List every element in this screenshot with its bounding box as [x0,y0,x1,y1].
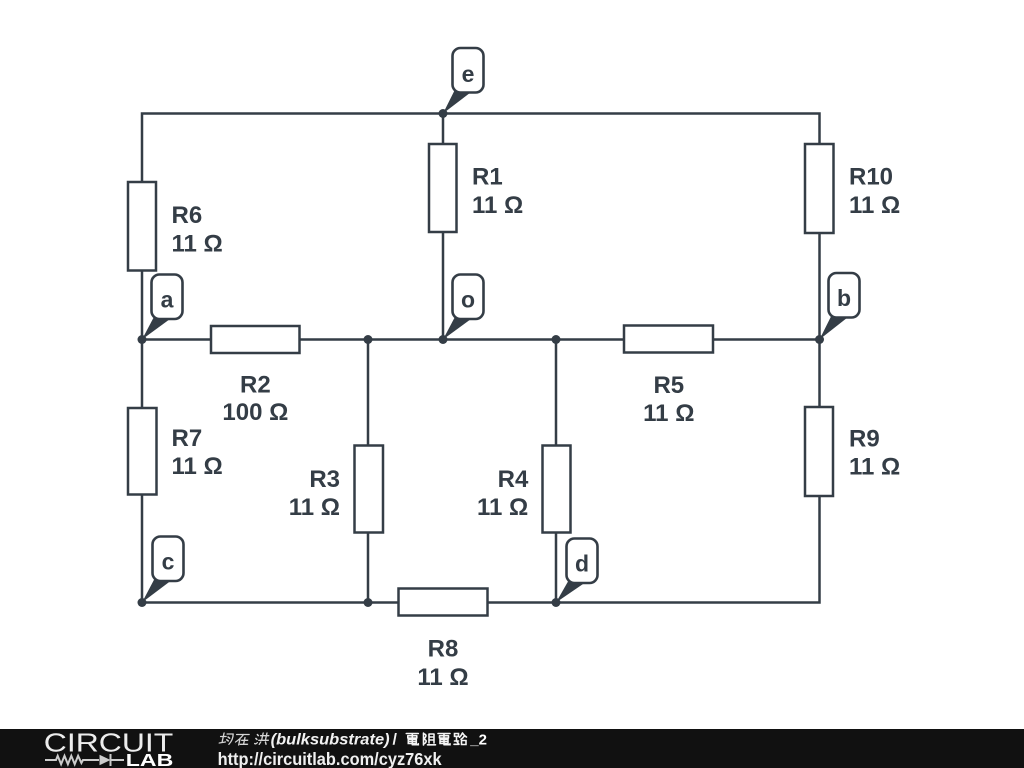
node o label [443,275,484,340]
glyph 路 [454,733,467,745]
svg-text:c: c [162,549,175,575]
svg-text:R9: R9 [849,426,880,453]
svg-text:11 Ω: 11 Ω [417,664,468,691]
glyph 電 (1st) [406,734,418,745]
wire middle horizontal a-o-b [142,338,820,341]
svg-text:_2: _2 [469,732,487,749]
svg-text:(bulksubstrate): (bulksubstrate) [271,732,390,749]
glyph 在 [234,735,249,746]
resistor R8 11Ω [399,589,488,692]
svg-text:11 Ω: 11 Ω [472,192,523,219]
svg-text:/: / [393,732,398,749]
svg-text:http://circuitlab.com/cyz76xk: http://circuitlab.com/cyz76xk [218,749,442,768]
CircuitLab logo resistor-diode squiggle [45,754,124,766]
wire outer loop (top / left / right / bottom) [142,114,820,603]
svg-text:11 Ω: 11 Ω [849,192,900,219]
svg-text:R4: R4 [498,466,529,493]
glyph 均 [219,733,234,744]
junction dot at node a [138,335,147,344]
wire R4 branch o-d [555,340,558,603]
resistor R7 11Ω [128,408,223,495]
resistor R9 11Ω [805,407,900,496]
wire R1 branch e-o [442,114,445,340]
svg-text:b: b [837,285,851,311]
junction dot R3 bottom tap [364,598,373,607]
svg-text:11 Ω: 11 Ω [172,453,223,480]
svg-text:R7: R7 [172,425,203,452]
svg-text:R6: R6 [172,202,203,229]
svg-text:R2: R2 [240,371,271,398]
resistor R1 11Ω [429,144,523,232]
junction dot at node d [552,598,561,607]
svg-text:d: d [575,551,589,577]
node d label [556,539,598,603]
svg-text:R5: R5 [653,372,684,399]
glyph 阻 [424,733,436,745]
svg-text:e: e [462,61,475,87]
footer bar [0,729,1024,768]
node a label [142,275,183,340]
node b label [820,273,860,340]
svg-text:R8: R8 [428,636,459,663]
footer title text: 均在 洪 (bulksubstrate) / 電阻電路_2 [219,733,270,745]
resistor R4 11Ω [477,446,570,533]
junction dot R3 top tap [364,335,373,344]
resistor R5 11Ω [624,326,713,427]
svg-text:R1: R1 [472,164,503,191]
svg-text:11 Ω: 11 Ω [289,494,340,521]
junction dot at node b [815,335,824,344]
node e label [443,48,484,114]
svg-text:100 Ω: 100 Ω [222,399,288,426]
glyph 洪 [255,733,270,744]
svg-text:a: a [161,287,174,313]
junction dot R4 top tap [552,335,561,344]
junction dot at node e [439,109,448,118]
wire R3 branch [367,340,370,603]
svg-text:R3: R3 [309,466,340,493]
resistor R2 100Ω [211,326,300,426]
svg-text:11 Ω: 11 Ω [172,231,223,258]
resistor R3 11Ω [289,446,383,533]
junction dot at node o [439,335,448,344]
svg-text:LAB: LAB [126,750,174,768]
junction dot at node c [138,598,147,607]
node c label [142,537,184,603]
svg-text:o: o [461,287,475,313]
svg-text:11 Ω: 11 Ω [849,454,900,481]
svg-text:11 Ω: 11 Ω [643,400,694,427]
svg-text:11 Ω: 11 Ω [477,494,528,521]
svg-text:R10: R10 [849,164,893,191]
glyph 電 (2nd) [438,734,450,745]
resistor R6 11Ω [128,182,223,271]
resistor R10 11Ω [805,144,900,233]
